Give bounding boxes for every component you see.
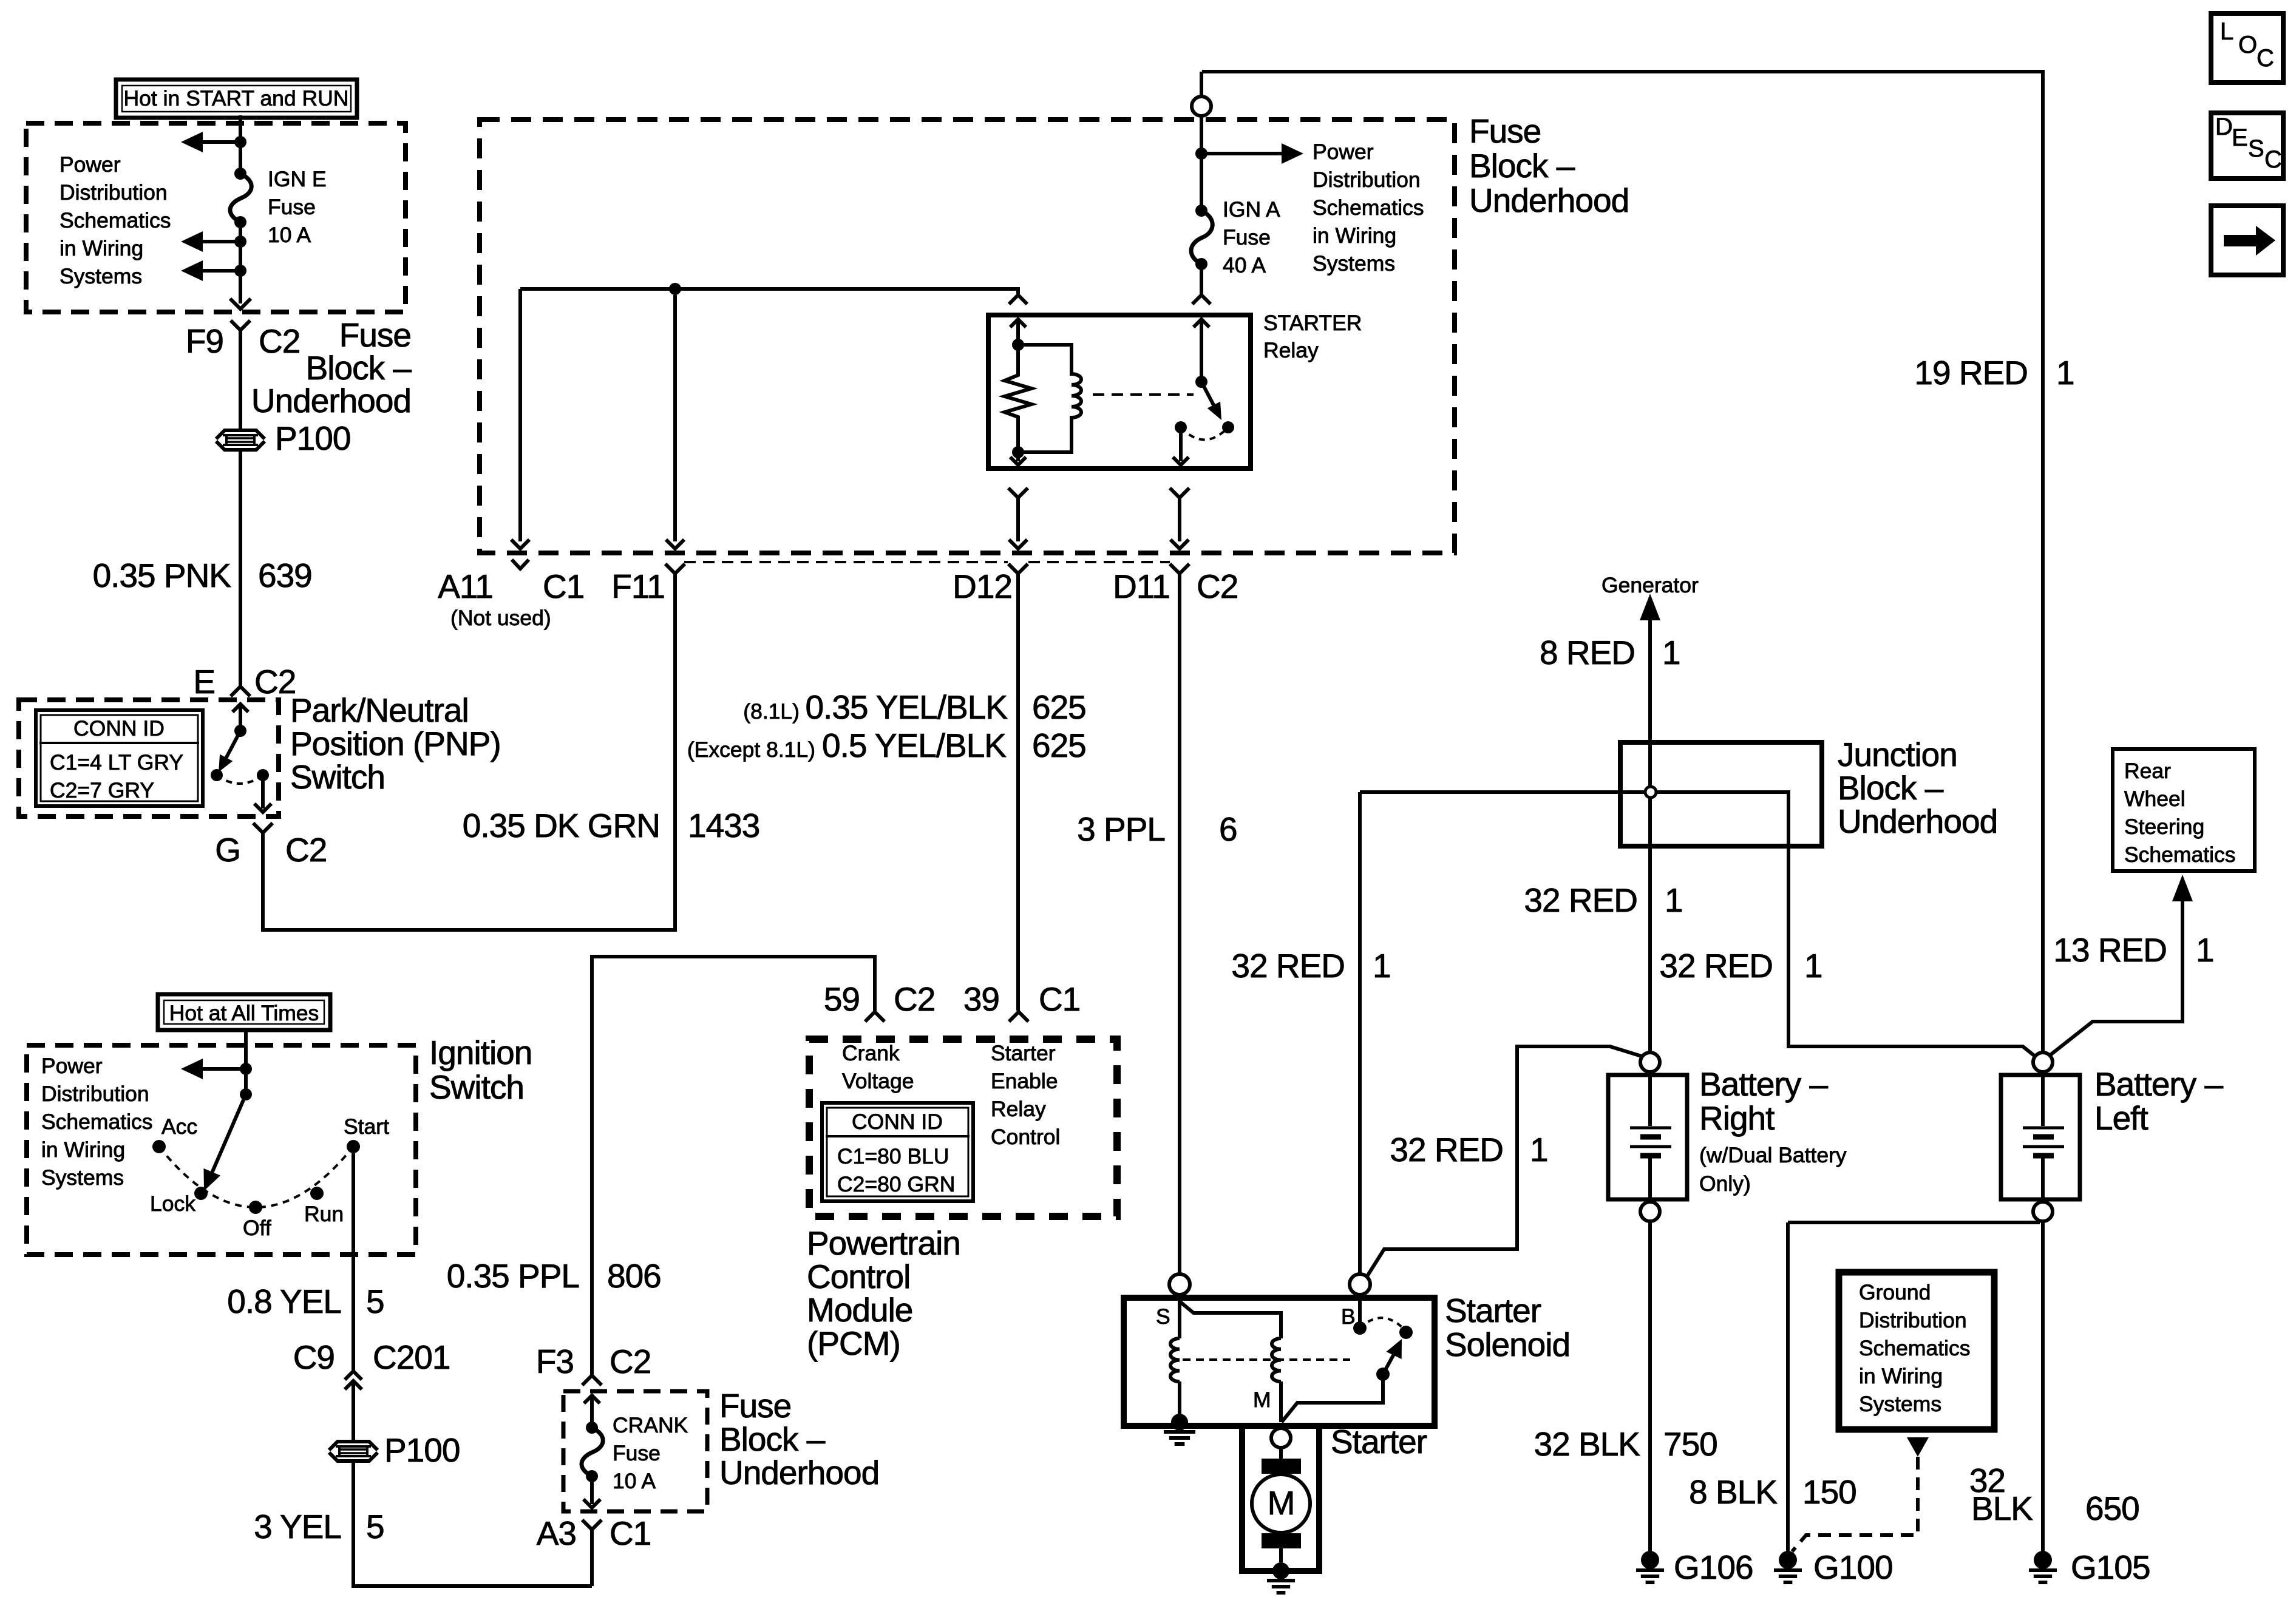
svg-text:625: 625: [1032, 688, 1086, 726]
svg-text:Ignition: Ignition: [429, 1034, 532, 1071]
svg-text:Power: Power: [1313, 140, 1374, 164]
arrowhead down into F9: [230, 299, 251, 309]
svg-text:(w/Dual Battery: (w/Dual Battery: [1699, 1143, 1847, 1167]
svg-text:Position (PNP): Position (PNP): [290, 725, 501, 762]
svg-text:Module: Module: [807, 1291, 912, 1329]
svg-text:Only): Only): [1699, 1171, 1751, 1196]
text label 0.35 PNK 639: [93, 557, 312, 594]
text label 32 RED 1 (gen wire): [1524, 881, 1682, 919]
wire motor to ground: [1279, 1548, 1283, 1562]
text label 8 BLK 150: [1689, 1473, 1856, 1511]
svg-text:Block –: Block –: [1838, 769, 1944, 807]
dashed wire ground distribution to G100: [1792, 1457, 1918, 1551]
text Off: [243, 1216, 271, 1240]
connector Y below relay D12: [1008, 488, 1028, 549]
svg-text:5: 5: [366, 1508, 384, 1545]
svg-text:32 RED: 32 RED: [1231, 947, 1345, 985]
connector G C2: [215, 823, 327, 869]
coil relay: [1018, 345, 1081, 452]
svg-text:C1=4 LT GRY: C1=4 LT GRY: [50, 750, 183, 775]
connector F9 C2: [186, 320, 301, 360]
arrow relay pin bottom right: [1173, 427, 1189, 465]
svg-text:Starter: Starter: [1445, 1292, 1541, 1329]
connector PCM 59 C2: [824, 980, 936, 1022]
arrow branch right power dist: [1201, 143, 1303, 164]
svg-text:CRANK: CRANK: [613, 1413, 688, 1437]
svg-text:1433: 1433: [688, 807, 759, 844]
svg-text:1: 1: [1804, 947, 1822, 985]
svg-text:0.35 DK GRN: 0.35 DK GRN: [463, 807, 660, 844]
node relay contact left: [1175, 421, 1187, 433]
svg-text:IGN A: IGN A: [1223, 197, 1280, 222]
fuse IGN A 40A: [1191, 205, 1212, 270]
text label 32 RED 1 (B wire): [1231, 947, 1390, 985]
svg-text:Distribution: Distribution: [59, 180, 168, 205]
wire Start down: [352, 1153, 355, 1370]
svg-text:G105: G105: [2071, 1548, 2150, 1586]
svg-text:3 YEL: 3 YEL: [254, 1508, 341, 1545]
node contact Run: [310, 1187, 324, 1200]
text Starter Solenoid: [1445, 1292, 1570, 1363]
node open circle solenoid S: [1169, 1274, 1190, 1295]
svg-text:Systems: Systems: [1859, 1392, 1941, 1416]
svg-text:Distribution: Distribution: [41, 1082, 149, 1106]
svg-text:Hot in START and RUN: Hot in START and RUN: [124, 86, 349, 110]
wire M to motor: [1279, 1448, 1283, 1459]
connector Y D11: [1170, 564, 1189, 574]
ground G105: [2029, 1548, 2150, 1586]
wire ignition feed: [244, 1028, 248, 1094]
node contact Start: [347, 1140, 360, 1153]
svg-text:0.5 YEL/BLK: 0.5 YEL/BLK: [822, 727, 1007, 764]
ground G100: [1774, 1548, 1893, 1586]
splice P100 (lower): [329, 1431, 460, 1469]
node open circle solenoid B: [1350, 1274, 1370, 1295]
connector Y F11: [665, 564, 685, 583]
svg-text:Hot at All Times: Hot at All Times: [169, 1001, 319, 1025]
text Starter Enable Relay Control: [991, 1041, 1060, 1149]
wire IGN A vertical: [1200, 116, 1203, 294]
text terminal M: [1253, 1388, 1271, 1412]
svg-text:Junction: Junction: [1838, 736, 1957, 773]
svg-text:C9: C9: [293, 1338, 335, 1376]
svg-text:Schematics: Schematics: [2124, 842, 2235, 867]
svg-text:Schematics: Schematics: [1313, 195, 1424, 220]
wire to G100: [1786, 1222, 1790, 1551]
wire P100 to corner: [353, 1462, 592, 1586]
svg-text:G106: G106: [1674, 1548, 1753, 1586]
svg-text:E: E: [193, 663, 215, 700]
svg-text:Systems: Systems: [41, 1165, 124, 1190]
dashed arc PNP: [217, 775, 263, 784]
node solenoid pivot: [1376, 1368, 1390, 1381]
text label 32 BLK 750: [1534, 1425, 1717, 1463]
switch blade relay: [1201, 382, 1221, 420]
dashed arc relay: [1181, 427, 1228, 440]
arrow relay pin top right: [1194, 319, 1209, 382]
svg-text:Switch: Switch: [429, 1068, 524, 1106]
svg-text:D12: D12: [953, 568, 1012, 605]
text label 3 PPL 6: [1077, 810, 1237, 848]
node contact Acc: [152, 1140, 166, 1153]
svg-text:BLK: BLK: [1971, 1490, 2033, 1527]
svg-text:C1: C1: [543, 568, 584, 605]
text Crank Voltage: [842, 1041, 914, 1093]
fuse CRANK 10A: [582, 1422, 603, 1482]
text Powertrain Control Module PCM: [807, 1224, 960, 1362]
svg-text:0.35 PNK: 0.35 PNK: [93, 557, 232, 594]
battery right: [1608, 1053, 1847, 1221]
svg-text:C2=7 GRY: C2=7 GRY: [50, 778, 154, 802]
svg-text:D: D: [2215, 114, 2233, 140]
node contact Lock: [194, 1187, 208, 1200]
label box Hot at All Times: [158, 994, 330, 1030]
ground distribution pointer: [1907, 1437, 1929, 1457]
text Lock: [150, 1192, 195, 1216]
text power distribution schematics (fuse block): [1313, 140, 1424, 276]
svg-text:Battery –: Battery –: [1699, 1065, 1829, 1103]
node relay coil top dot: [1012, 339, 1024, 351]
connector Y D12: [1008, 564, 1028, 574]
splice P100 (upper): [216, 419, 350, 457]
wire C201 to P100: [352, 1382, 355, 1441]
dashed link solenoid: [1183, 1358, 1350, 1361]
svg-text:8 BLK: 8 BLK: [1689, 1473, 1778, 1511]
text IGN E Fuse 10 A: [268, 167, 327, 247]
svg-text:Schematics: Schematics: [1859, 1336, 1970, 1360]
junction block box: [1620, 742, 1822, 846]
svg-text:S: S: [2248, 135, 2264, 162]
node junction dot 2: [234, 236, 246, 248]
svg-text:Schematics: Schematics: [41, 1110, 152, 1134]
wire P100 to E: [239, 450, 242, 686]
svg-text:639: 639: [258, 557, 312, 594]
ground G106: [1636, 1548, 1753, 1586]
svg-text:Underhood: Underhood: [1469, 181, 1629, 219]
wire PCM pin 59 feed: [592, 957, 875, 1375]
svg-text:Relay: Relay: [1263, 338, 1319, 362]
node junction dot IGN A: [1195, 147, 1207, 160]
text label 0.35 DK GRN 1433: [463, 807, 760, 844]
svg-text:Distribution: Distribution: [1313, 168, 1421, 192]
svg-text:6: 6: [1219, 810, 1237, 848]
svg-text:Steering: Steering: [2124, 815, 2204, 839]
svg-text:Power: Power: [59, 152, 121, 177]
svg-text:C2: C2: [1197, 568, 1238, 605]
node junction dot 1: [234, 136, 246, 148]
svg-text:C2: C2: [610, 1343, 651, 1380]
svg-text:0.35 PPL: 0.35 PPL: [447, 1257, 579, 1295]
node PNP contact right: [257, 769, 269, 781]
text CRANK Fuse 10 A: [613, 1413, 688, 1493]
button LOC: [2211, 13, 2283, 83]
svg-text:Ground: Ground: [1859, 1280, 1931, 1304]
coil solenoid hold-in: [1272, 1338, 1281, 1422]
svg-text:Lock: Lock: [150, 1192, 195, 1216]
svg-text:1: 1: [1662, 634, 1680, 671]
switch blade solenoid: [1383, 1339, 1402, 1374]
svg-text:in Wiring: in Wiring: [1859, 1364, 1943, 1388]
dashed box power distribution (top left): [26, 123, 406, 312]
arrow relay pin bottom left: [1010, 452, 1026, 465]
wire junction to battery left: [1651, 792, 2035, 1056]
ground distribution box: [1839, 1272, 1994, 1429]
svg-text:in Wiring: in Wiring: [59, 236, 143, 260]
text label 0.35 PPL 806: [447, 1257, 661, 1295]
svg-text:32 BLK: 32 BLK: [1534, 1425, 1641, 1463]
node PNP contact left: [211, 769, 223, 781]
connector chevron into relay left: [1009, 295, 1027, 304]
wire 13 RED to rear steering: [2050, 875, 2193, 1056]
text label 0.8 YEL 5: [227, 1283, 384, 1320]
svg-text:Control: Control: [807, 1258, 910, 1295]
svg-text:Voltage: Voltage: [842, 1069, 914, 1093]
wire IGN E feed vertical: [239, 115, 242, 303]
wire battery right to G106: [1648, 1221, 1652, 1551]
svg-text:5: 5: [366, 1283, 384, 1320]
dashed box PCM: [809, 1039, 1117, 1216]
svg-text:M: M: [1253, 1388, 1271, 1412]
svg-text:STARTER: STARTER: [1263, 311, 1362, 335]
connector A3 C1: [537, 1514, 651, 1586]
wire solenoid M path: [1282, 1374, 1383, 1422]
svg-text:D11: D11: [1113, 568, 1170, 605]
svg-text:59: 59: [824, 980, 860, 1018]
svg-text:Control: Control: [991, 1125, 1060, 1149]
svg-text:Rear: Rear: [2124, 759, 2171, 783]
battery left: [2001, 1053, 2224, 1221]
svg-text:Battery –: Battery –: [2094, 1065, 2224, 1103]
ground solenoid coil: [1164, 1414, 1195, 1444]
svg-text:C201: C201: [373, 1338, 450, 1376]
svg-text:Fuse: Fuse: [1469, 112, 1541, 150]
svg-text:Fuse: Fuse: [339, 316, 411, 354]
text IGN A Fuse 40 A: [1223, 197, 1280, 277]
svg-text:Crank: Crank: [842, 1041, 900, 1065]
svg-text:S: S: [1156, 1304, 1170, 1329]
node ignition junction dot 1: [240, 1063, 252, 1075]
svg-text:CONN ID: CONN ID: [852, 1110, 943, 1134]
svg-text:10 A: 10 A: [268, 223, 311, 247]
text terminals A11 C1 F11: [438, 568, 665, 605]
wire A11 branch: [511, 289, 529, 549]
text Starter: [1331, 1423, 1427, 1460]
svg-text:Start: Start: [344, 1114, 389, 1139]
wire S coil left: [1178, 1295, 1181, 1338]
svg-text:C2: C2: [259, 322, 300, 360]
node solenoid contact right: [1399, 1326, 1413, 1339]
text Generator: [1601, 573, 1699, 597]
svg-text:C2: C2: [285, 831, 327, 869]
svg-text:Fuse: Fuse: [719, 1387, 791, 1425]
svg-text:P100: P100: [275, 419, 350, 457]
svg-text:Schematics: Schematics: [59, 208, 171, 232]
dashed connector line C1 C2: [684, 561, 1170, 563]
arrow relay pin top left: [1010, 319, 1026, 345]
node open circle starter M: [1271, 1428, 1291, 1448]
resistor relay: [1005, 345, 1031, 452]
svg-text:32 RED: 32 RED: [1390, 1131, 1503, 1168]
arrow to generator: [1640, 594, 1660, 1053]
label box Hot in START and RUN: [116, 80, 357, 118]
svg-text:625: 625: [1032, 727, 1086, 764]
node contact Off: [249, 1201, 262, 1214]
dashed box PNP switch: [19, 700, 279, 816]
conn id box PNP: [36, 710, 203, 806]
svg-text:A11: A11: [438, 568, 493, 605]
text terminal B: [1341, 1304, 1356, 1329]
fuse IGN E 10A: [230, 168, 251, 228]
svg-text:Underhood: Underhood: [719, 1454, 879, 1491]
svg-text:Distribution: Distribution: [1859, 1308, 1967, 1332]
svg-text:Enable: Enable: [991, 1069, 1058, 1093]
text Fuse Block Underhood (crank): [719, 1387, 879, 1491]
svg-text:Fuse: Fuse: [1223, 225, 1271, 249]
node relay contact right: [1222, 421, 1234, 433]
svg-text:1: 1: [2196, 931, 2214, 969]
wire G down and right to F11: [263, 574, 675, 930]
svg-text:32 RED: 32 RED: [1524, 881, 1637, 919]
svg-text:8 RED: 8 RED: [1540, 634, 1635, 671]
svg-text:in Wiring: in Wiring: [1313, 223, 1396, 248]
text label 19 RED 1: [1914, 354, 2074, 392]
wire battery left to G105: [2041, 1221, 2045, 1551]
svg-text:150: 150: [1802, 1473, 1856, 1511]
node open circle top feed: [1192, 97, 1211, 116]
text (Not used): [450, 606, 551, 630]
svg-text:Underhood: Underhood: [251, 382, 411, 419]
svg-text:C2=80 GRN: C2=80 GRN: [837, 1172, 955, 1196]
node relay coil bottom dot: [1012, 446, 1024, 458]
dashed box ignition switch: [27, 1045, 416, 1255]
svg-text:C1: C1: [1039, 980, 1080, 1018]
node junction block circle: [1645, 787, 1656, 798]
svg-text:806: 806: [607, 1257, 661, 1295]
svg-text:Systems: Systems: [1313, 251, 1395, 276]
conn id box PCM: [822, 1103, 973, 1201]
svg-text:Power: Power: [41, 1054, 103, 1078]
text Park Neutral Position Switch: [290, 691, 501, 796]
connector Y below relay D11: [1170, 488, 1189, 549]
svg-text:750: 750: [1663, 1425, 1717, 1463]
svg-text:G: G: [215, 831, 240, 869]
svg-text:Generator: Generator: [1601, 573, 1699, 597]
wire D11 to solenoid S: [1178, 574, 1181, 1274]
svg-text:0.35 YEL/BLK: 0.35 YEL/BLK: [805, 688, 1008, 726]
dashed box crank fuse: [563, 1391, 707, 1511]
arrow crank fuse exit: [583, 1476, 600, 1508]
svg-text:13 RED: 13 RED: [2053, 931, 2167, 969]
svg-text:Starter: Starter: [1331, 1423, 1427, 1460]
starter box: [1242, 1426, 1319, 1571]
svg-text:Relay: Relay: [991, 1097, 1046, 1121]
wire top feed horizontal 19 RED: [1202, 72, 2043, 1053]
node PNP pivot dot: [234, 725, 246, 737]
svg-text:1: 1: [1373, 947, 1391, 985]
coil solenoid pull-in: [1170, 1338, 1180, 1414]
motor starter: [1252, 1459, 1310, 1548]
node junction dot F11 branch: [669, 283, 681, 295]
svg-text:(Except 8.1L): (Except 8.1L): [687, 737, 815, 762]
svg-text:E: E: [2232, 124, 2248, 151]
svg-text:10 A: 10 A: [613, 1469, 656, 1493]
dashed arc solenoid: [1360, 1318, 1406, 1331]
wire F9 to P100: [239, 330, 242, 430]
rear wheel steering box: [2113, 749, 2255, 871]
svg-text:(PCM): (PCM): [807, 1324, 900, 1362]
svg-text:39: 39: [963, 980, 999, 1018]
solenoid box: [1124, 1298, 1435, 1426]
wire circle stub: [1200, 72, 1203, 97]
wire coil feed horizontal: [520, 289, 1018, 294]
wire D12 to PCM: [1016, 574, 1020, 1011]
svg-text:40 A: 40 A: [1223, 253, 1266, 277]
svg-text:C1=80 BLU: C1=80 BLU: [837, 1144, 949, 1168]
text Fuse Block Underhood (top right): [1469, 112, 1629, 219]
svg-text:650: 650: [2085, 1490, 2139, 1527]
relay box STARTER: [988, 315, 1251, 469]
text Run: [304, 1202, 344, 1226]
node relay pivot dot: [1195, 376, 1207, 388]
svg-text:A3: A3: [537, 1514, 576, 1552]
svg-text:Off: Off: [243, 1216, 271, 1240]
svg-text:Run: Run: [304, 1202, 344, 1226]
svg-text:Left: Left: [2094, 1099, 2148, 1137]
text terminal S: [1156, 1304, 1170, 1329]
svg-text:Solenoid: Solenoid: [1445, 1326, 1570, 1363]
text label 3 YEL 5: [254, 1508, 384, 1545]
dashed link relay: [1093, 393, 1194, 396]
connector C9 C201: [293, 1338, 450, 1389]
svg-text:C1: C1: [610, 1514, 651, 1552]
text Acc: [161, 1114, 197, 1139]
svg-text:IGN E: IGN E: [268, 167, 327, 191]
arrow into crank fuse: [584, 1395, 600, 1428]
svg-text:19 RED: 19 RED: [1914, 354, 2028, 392]
connector F3 C2: [536, 1343, 651, 1385]
svg-text:C: C: [2264, 146, 2282, 173]
svg-text:C: C: [2257, 45, 2274, 72]
svg-text:Block –: Block –: [719, 1420, 826, 1458]
svg-text:L: L: [2220, 18, 2233, 45]
svg-text:1: 1: [2056, 354, 2074, 392]
dashed box fuse block underhood: [480, 120, 1455, 553]
text label 13 RED 1: [2053, 931, 2213, 969]
text label 32 BLK 650: [1969, 1462, 2139, 1527]
svg-text:C2: C2: [894, 980, 935, 1018]
svg-text:Fuse: Fuse: [268, 195, 316, 219]
svg-text:1: 1: [1530, 1131, 1548, 1168]
svg-text:F9: F9: [186, 322, 223, 360]
text Fuse Block Underhood (left): [251, 316, 412, 419]
text power distribution schematics (ignition): [41, 1054, 152, 1190]
svg-text:G100: G100: [1813, 1548, 1893, 1586]
arrow ignition branch left: [181, 1059, 246, 1079]
svg-text:CONN ID: CONN ID: [73, 716, 165, 741]
svg-text:Block –: Block –: [306, 349, 412, 387]
svg-text:Wheel: Wheel: [2124, 787, 2186, 811]
arrow branch left 2: [181, 231, 240, 252]
svg-text:Park/Neutral: Park/Neutral: [290, 691, 469, 729]
svg-text:Starter: Starter: [991, 1041, 1056, 1065]
wire B up to junction: [1358, 792, 1362, 1274]
text Start: [344, 1114, 389, 1139]
node solenoid B contact dot: [1353, 1321, 1367, 1335]
svg-text:32 RED: 32 RED: [1659, 947, 1773, 985]
wire battery left bottom branch: [1788, 1221, 2040, 1224]
svg-text:F11: F11: [611, 568, 665, 605]
text label except 8.1L line2: [687, 727, 1086, 764]
